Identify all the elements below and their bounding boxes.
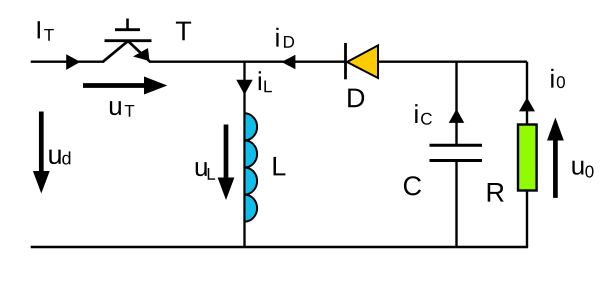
label u_0 bbox=[572, 161, 593, 178]
wire top middle segment bbox=[149, 61, 346, 63]
transistor T gate plate bbox=[115, 28, 140, 31]
label D bbox=[348, 89, 364, 108]
arrowhead current i_D bbox=[282, 55, 296, 70]
transistor T emitter arrowhead bbox=[133, 48, 150, 61]
voltage arrow u_0 bbox=[547, 118, 564, 198]
label i_0 bbox=[551, 69, 565, 88]
capacitor C top plate bbox=[430, 144, 483, 147]
transistor T gate lead bbox=[126, 19, 129, 30]
wire top-left input segment bbox=[31, 61, 104, 63]
label u_T bbox=[110, 101, 134, 117]
wire capacitor branch upper bbox=[455, 62, 457, 146]
wire capacitor branch lower bbox=[455, 161, 457, 248]
label I_T bbox=[38, 21, 54, 40]
arrowhead current i_0 bbox=[519, 98, 535, 112]
label R bbox=[488, 183, 504, 202]
transistor T emitter diagonal bbox=[128, 41, 150, 62]
capacitor C bottom plate bbox=[430, 159, 483, 162]
inductor L winding bumps bbox=[245, 113, 258, 221]
voltage arrow u_L bbox=[218, 125, 235, 201]
label i_C bbox=[415, 104, 432, 125]
arrowhead current i_C bbox=[449, 109, 465, 123]
voltage arrow u_T bbox=[83, 77, 167, 95]
label u_L bbox=[196, 162, 215, 180]
label C bbox=[404, 176, 421, 195]
label i_L bbox=[259, 71, 272, 92]
diode D triangle bbox=[347, 45, 378, 78]
wire resistor branch lower bbox=[526, 191, 528, 248]
wire bottom return bbox=[31, 246, 528, 248]
arrowhead current i_L bbox=[236, 80, 252, 95]
wire resistor branch upper bbox=[526, 62, 528, 125]
label i_D bbox=[276, 28, 294, 48]
diode D cathode bar bbox=[344, 43, 347, 79]
wire inductor branch bbox=[243, 62, 245, 247]
arrowhead current I_T bbox=[66, 54, 80, 70]
label L bbox=[273, 157, 285, 176]
transistor T channel bar bbox=[105, 39, 152, 42]
transistor T collector diagonal bbox=[103, 41, 128, 62]
resistor R body bbox=[518, 125, 537, 191]
wire top right segment bbox=[378, 61, 527, 63]
voltage arrow u_d bbox=[33, 112, 50, 194]
label u_d bbox=[49, 150, 70, 165]
label T bbox=[176, 22, 191, 41]
